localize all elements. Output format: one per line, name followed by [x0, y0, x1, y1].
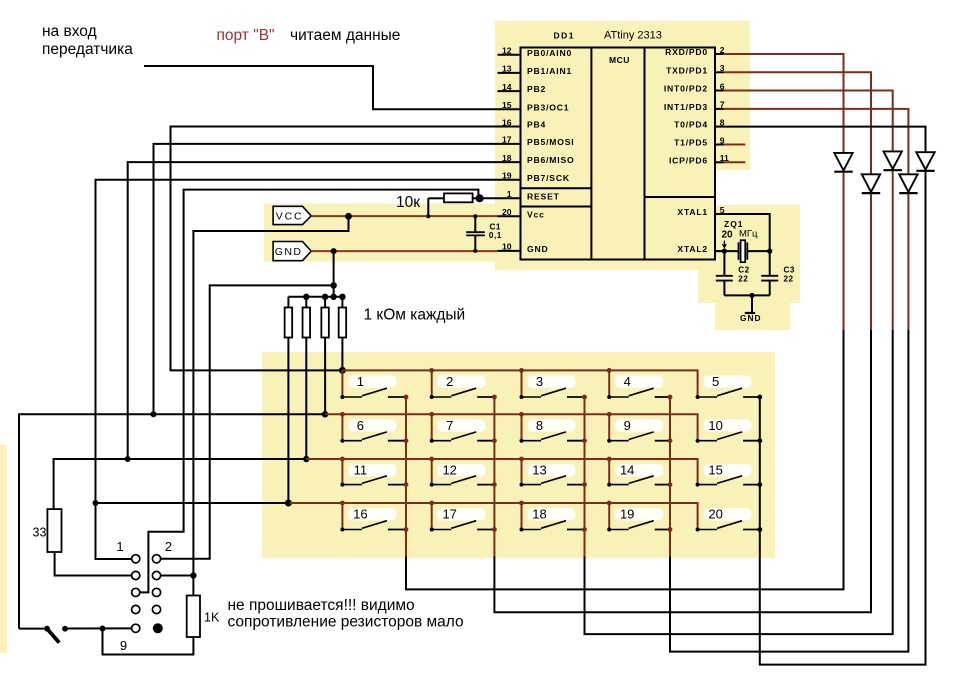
- wire row3 bus black part: [54, 459, 307, 509]
- svg-text:3: 3: [536, 374, 543, 389]
- wire PB6 pin18 down: [128, 162, 498, 459]
- wire diode 4 down and left to column 4: [670, 330, 908, 652]
- svg-text:14: 14: [502, 82, 512, 92]
- resistor R3 1k: [321, 297, 329, 415]
- svg-text:МГц: МГц: [739, 229, 758, 240]
- svg-text:15: 15: [502, 100, 512, 110]
- highlight crystal area: [698, 205, 800, 303]
- svg-text:PB6/MISO: PB6/MISO: [527, 155, 574, 165]
- wire GND branch down: [333, 251, 335, 285]
- wire row4 bus red: [290, 503, 698, 530]
- svg-text:6: 6: [357, 418, 364, 433]
- capacitor C1 0,1: [466, 214, 485, 253]
- resistor R1 1k: [285, 297, 293, 503]
- highlight key matrix: [262, 352, 775, 558]
- wire XTAL2 to crystal: [715, 250, 739, 252]
- svg-text:15: 15: [708, 463, 722, 478]
- svg-text:2: 2: [165, 539, 172, 554]
- wire 10k to VCC line: [427, 198, 429, 216]
- svg-text:T1/PD5: T1/PD5: [674, 138, 708, 148]
- svg-text:10к: 10к: [396, 194, 420, 211]
- diode VD1: [834, 153, 852, 172]
- wire resistor header bus: [288, 296, 342, 298]
- svg-text:GND: GND: [740, 313, 761, 323]
- wire RESET pin 1 to junction: [480, 197, 498, 199]
- svg-text:20: 20: [722, 230, 734, 241]
- node R4 to row1: [339, 367, 346, 374]
- svg-text:17: 17: [442, 507, 456, 522]
- diode VD3: [884, 151, 902, 170]
- button S14: [607, 457, 673, 487]
- wire GND to resistor header: [333, 285, 335, 296]
- svg-text:12: 12: [442, 463, 456, 478]
- svg-text:передатчика: передатчика: [42, 41, 133, 58]
- button S12: [429, 457, 496, 487]
- svg-text:C1: C1: [490, 223, 501, 232]
- highlight gnd symbol area: [715, 295, 790, 330]
- resistor 10k: [428, 193, 479, 202]
- svg-text:C3: C3: [784, 266, 795, 275]
- svg-text:1 кОм каждый: 1 кОм каждый: [364, 307, 466, 324]
- power flag VCC: [273, 206, 311, 224]
- diode VD2: [862, 174, 880, 193]
- wire diode 2 down and left to column 2: [494, 330, 871, 612]
- button S3: [519, 368, 587, 399]
- button S17: [429, 501, 496, 532]
- svg-text:12: 12: [502, 46, 512, 56]
- svg-text:22: 22: [784, 275, 794, 284]
- switch SA1: [44, 626, 68, 643]
- wire crystal caps to ground: [724, 294, 769, 296]
- button S18: [519, 501, 587, 532]
- svg-text:16: 16: [353, 507, 367, 522]
- node crystal right junction: [767, 249, 772, 254]
- svg-text:16: 16: [502, 117, 512, 127]
- node VCC at programmer: [190, 572, 196, 578]
- svg-text:читаем данные: читаем данные: [290, 27, 400, 44]
- svg-text:19: 19: [620, 507, 634, 522]
- svg-text:T0/PD4: T0/PD4: [674, 120, 708, 130]
- wire XTAL1 to crystal: [715, 214, 770, 251]
- svg-text:PB2: PB2: [527, 84, 546, 94]
- button S20: [696, 507, 763, 532]
- wire column 2 in matrix (red section): [493, 397, 495, 557]
- svg-text:7: 7: [446, 418, 453, 433]
- button S10: [696, 418, 763, 443]
- wire row1 bus red: [342, 370, 697, 397]
- svg-text:2: 2: [446, 374, 453, 389]
- svg-text:RXD/PD0: RXD/PD0: [665, 47, 708, 57]
- svg-text:MCU: MCU: [609, 55, 630, 65]
- button S19: [607, 501, 673, 532]
- node ground junction: [749, 293, 754, 298]
- svg-text:33: 33: [33, 526, 47, 540]
- node VCC junction: [345, 213, 352, 220]
- button S5: [696, 374, 763, 399]
- svg-text:не прошивается!!! видимо: не прошивается!!! видимо: [228, 597, 415, 614]
- svg-text:PB5/MOSI: PB5/MOSI: [527, 137, 574, 147]
- svg-text:22: 22: [738, 275, 748, 284]
- node GND junction: [331, 248, 337, 254]
- wire GND flag to pin 10: [311, 250, 497, 252]
- power flag GND: [273, 242, 311, 261]
- wire PD4 pin 8 to column 5: [724, 127, 926, 665]
- wire VCC to connector pin 2 right: [161, 575, 194, 577]
- node PB6 row3: [125, 456, 131, 462]
- svg-text:20: 20: [502, 207, 512, 217]
- button S8: [519, 412, 587, 443]
- svg-text:18: 18: [532, 507, 546, 522]
- pin 4 arrow mark: [723, 241, 727, 248]
- wire VCC flag to pin 20: [311, 215, 497, 217]
- svg-text:порт "В": порт "В": [217, 27, 275, 44]
- diode VD4: [899, 174, 917, 193]
- wire switch to pin 9: [65, 627, 132, 629]
- node RESET junction: [476, 194, 484, 202]
- node 10k on VCC line: [426, 214, 430, 218]
- wire PD1 pin to diode (red section): [724, 72, 872, 330]
- wire row2 ext to switch: [19, 628, 44, 630]
- resistor R2 1k: [303, 297, 311, 459]
- wire PD3 pin to diode (red section): [724, 109, 909, 330]
- node header R3: [322, 294, 328, 300]
- svg-text:C2: C2: [738, 266, 749, 275]
- svg-text:VCC: VCC: [276, 211, 304, 223]
- wire diode 1 down and left to column 1: [406, 330, 844, 589]
- svg-text:TXD/PD1: TXD/PD1: [666, 65, 708, 75]
- svg-text:4: 4: [624, 374, 631, 389]
- svg-text:INT0/PD2: INT0/PD2: [664, 84, 708, 94]
- button S13: [519, 457, 587, 487]
- node R2 to row3: [303, 456, 309, 462]
- wire column 1 in matrix (red section): [405, 397, 407, 557]
- svg-text:0,1: 0,1: [489, 231, 502, 240]
- svg-text:13: 13: [502, 64, 512, 74]
- svg-text:PB4: PB4: [527, 120, 546, 130]
- wire PB7 pin19 down: [96, 180, 498, 559]
- svg-text:RESET: RESET: [527, 191, 560, 201]
- wire transmitter to PB3/OC1 pin 15: [144, 66, 498, 109]
- button S7: [429, 412, 496, 443]
- svg-text:1: 1: [116, 539, 123, 554]
- capacitor C2 22: [716, 251, 733, 295]
- svg-text:XTAL1: XTAL1: [677, 207, 708, 217]
- node header R2: [303, 294, 309, 300]
- button S9: [607, 412, 673, 443]
- wire PB4 pin16 to row1 bus: [171, 127, 498, 371]
- wire column 4 in matrix (red section): [669, 397, 671, 557]
- highlight chip area: [495, 21, 750, 170]
- svg-text:5: 5: [712, 374, 719, 389]
- svg-text:19: 19: [502, 171, 512, 181]
- wire row2 bus black part: [19, 414, 325, 628]
- svg-text:XTAL2: XTAL2: [677, 244, 708, 254]
- svg-text:18: 18: [502, 153, 512, 163]
- button S4: [607, 368, 673, 399]
- svg-text:11: 11: [354, 463, 368, 478]
- node XTAL2 junction: [722, 249, 727, 254]
- svg-text:1K: 1K: [204, 611, 220, 625]
- node switch net junction: [100, 626, 106, 632]
- wire row4 bus black part: [96, 502, 290, 504]
- highlight vcc gnd wires: [264, 204, 498, 262]
- MCU DD1 ATtiny 2313 body and pins: [498, 45, 746, 260]
- button S16: [340, 501, 408, 532]
- node R1 to row4: [285, 500, 292, 507]
- svg-text:20: 20: [708, 507, 722, 522]
- svg-text:GND: GND: [527, 244, 549, 254]
- wire PD2 pin to diode (red section): [724, 91, 893, 331]
- highlight chip area lower: [495, 170, 715, 270]
- highlight left edge strip: [0, 445, 7, 653]
- connector programmer pins: [132, 555, 161, 633]
- wire GND branch to programmer: [161, 285, 334, 558]
- button S6: [340, 412, 408, 443]
- node R3 to row2: [322, 411, 328, 417]
- svg-text:PB0/AIN0: PB0/AIN0: [527, 48, 572, 58]
- button S15: [696, 463, 763, 487]
- node PB7 row4: [93, 500, 99, 506]
- node header GND drop: [330, 294, 336, 300]
- svg-text:PB3/OC1: PB3/OC1: [527, 102, 569, 112]
- svg-text:9: 9: [624, 418, 631, 433]
- svg-text:10: 10: [708, 418, 722, 433]
- svg-text:на вход: на вход: [42, 23, 97, 40]
- svg-text:17: 17: [502, 135, 512, 145]
- svg-text:INT1/PD3: INT1/PD3: [664, 102, 708, 112]
- svg-text:DD1: DD1: [554, 31, 576, 41]
- node connector pin 10 marked: [153, 623, 163, 633]
- wire diode 3 down and left to column 3: [585, 330, 893, 634]
- button S11: [340, 457, 408, 487]
- wire PD0 pin to diode (red section): [724, 54, 844, 330]
- capacitor C3 22: [761, 251, 778, 295]
- svg-text:ICP/PD6: ICP/PD6: [669, 155, 708, 165]
- wire column 3 in matrix (red section): [584, 397, 586, 557]
- wire row2 bus red: [325, 414, 697, 440]
- node header R4: [339, 294, 345, 300]
- svg-text:14: 14: [620, 463, 634, 478]
- wire VCC branch down-left-down to programmer: [193, 216, 348, 575]
- svg-text:ZQ1: ZQ1: [724, 219, 744, 229]
- wire RESET to programmer connector: [140, 190, 479, 593]
- diode VD5: [916, 152, 934, 171]
- svg-text:GND: GND: [275, 246, 303, 258]
- svg-text:13: 13: [532, 463, 546, 478]
- svg-text:PB7/SCK: PB7/SCK: [527, 173, 570, 183]
- wire PB5 pin17 down: [154, 144, 498, 414]
- node PB5 row2: [151, 411, 157, 417]
- svg-text:8: 8: [536, 418, 543, 433]
- svg-text:9: 9: [120, 638, 127, 653]
- wire row3 bus red: [306, 459, 697, 485]
- button S1: [340, 370, 408, 399]
- svg-text:1: 1: [507, 189, 512, 199]
- crystal ZQ1: [739, 240, 770, 262]
- ground symbol: [740, 295, 761, 323]
- svg-text:1: 1: [357, 374, 364, 389]
- node GND branch split: [330, 282, 337, 289]
- resistor 33: [47, 509, 131, 575]
- svg-text:Vcc: Vcc: [527, 209, 545, 219]
- resistor R4 1k: [339, 297, 347, 371]
- svg-text:10: 10: [502, 242, 512, 252]
- button S2: [429, 368, 496, 399]
- svg-text:PB1/AIN1: PB1/AIN1: [527, 66, 572, 76]
- svg-text:ATtiny 2313: ATtiny 2313: [604, 30, 662, 42]
- svg-text:сопротивление резисторов мало: сопротивление резисторов мало: [228, 614, 464, 631]
- resistor 1K: [103, 576, 201, 655]
